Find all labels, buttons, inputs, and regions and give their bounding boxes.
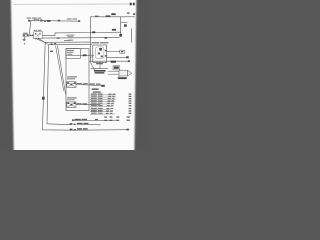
wire W2	[43, 37, 120, 40]
diagonal from left edge to horn switch cluster	[90, 61, 95, 70]
label BLK/WHT above wire A	[27, 18, 32, 19]
labels above W4 left	[64, 40, 71, 41]
small text rows right of tall box	[92, 88, 99, 90]
wire right of switch to comp	[107, 51, 120, 53]
connector blob	[40, 20, 42, 22]
horn unit 2 labels	[67, 97, 77, 98]
dark label under pennant	[118, 77, 127, 79]
connector blob3	[58, 20, 60, 22]
row R9 label and connectors	[77, 128, 82, 129]
wire A top horizontal	[29, 19, 80, 22]
big right box left edge	[89, 17, 91, 62]
header rule	[14, 3, 133, 5]
wire button to relay	[29, 34, 33, 36]
ground marks	[23, 39, 26, 40]
big right box top edge	[90, 16, 134, 18]
stub wire left of switch box	[90, 56, 92, 58]
diagonal D3a to horn unit box	[56, 46, 64, 91]
vertical V1 with long bottom row	[42, 42, 128, 130]
left gray margin	[0, 0, 14, 154]
switch box	[93, 45, 107, 62]
horn unit 2	[67, 102, 76, 108]
arrow feed lines	[108, 70, 119, 72]
wire W4	[44, 41, 90, 43]
switch mechanism	[96, 47, 104, 59]
horn button body	[23, 34, 29, 36]
row R8 label and line	[77, 123, 83, 124]
diagonal D2 relay to W5	[39, 39, 48, 45]
pin blob on W1	[92, 31, 95, 33]
big right box right edge	[131, 29, 133, 43]
ladder row 6	[90, 108, 111, 110]
relay terminals	[35, 38, 36, 40]
wire A end terminal	[78, 20, 80, 22]
page number	[130, 3, 132, 6]
row RA from left	[73, 119, 117, 121]
lower text rows in tall box	[67, 76, 77, 77]
ladder row 7	[90, 111, 113, 113]
connector grid row 2	[104, 120, 107, 121]
small connector box with text	[113, 66, 120, 70]
horn relay label	[34, 30, 37, 31]
ladder row 2	[90, 98, 116, 100]
inner vertical with arrow blob	[120, 17, 122, 37]
wire button down	[24, 37, 26, 40]
vertical V2 with L-turn	[47, 45, 70, 125]
exit wire 2	[76, 104, 100, 106]
wire A start blob	[28, 20, 30, 22]
bowtie connector on wire	[83, 54, 87, 56]
B6 text	[111, 61, 116, 63]
pennant tail	[117, 76, 119, 78]
wire 2 right of switch	[107, 56, 127, 58]
switch pins	[105, 50, 107, 51]
ladder row 1	[90, 96, 116, 98]
nested module box top-left	[66, 49, 80, 59]
horn button label	[23, 33, 27, 34]
ladder row 4	[90, 103, 114, 105]
ladder row 8	[90, 113, 115, 115]
switch box label above	[92, 42, 100, 43]
B2 text	[111, 13, 115, 15]
connector bowtie	[47, 20, 51, 22]
ladder row 5	[90, 105, 113, 107]
wire y68.7	[91, 68, 108, 70]
page background	[0, 0, 150, 150]
right gray margin	[134, 0, 156, 154]
wire W1 inside right box	[90, 31, 120, 33]
connector grid row 1	[104, 116, 107, 117]
diagonal D3b	[57, 45, 65, 94]
dash label near V2	[50, 51, 53, 52]
horn unit 1	[67, 82, 76, 88]
wire W1 stepped	[43, 33, 91, 36]
ladder row 3	[90, 101, 115, 103]
connector pennant	[119, 70, 128, 76]
wire W5 long	[49, 43, 92, 46]
diagonal D1 relay to W4	[37, 39, 45, 42]
horn relay box	[34, 32, 43, 39]
horn switch text	[94, 70, 106, 72]
BR text	[112, 29, 116, 31]
line y61	[89, 60, 128, 62]
label on V1	[42, 97, 45, 100]
ladder row 0	[90, 94, 116, 96]
wire drop to horn button	[29, 21, 31, 35]
connector C1 on wire A	[34, 19, 39, 21]
label on top edge	[106, 15, 111, 17]
label above wire A right	[67, 18, 72, 19]
label rows near W1 W2	[66, 35, 74, 36]
tall center box	[66, 49, 89, 111]
switch box bottom text	[96, 63, 103, 64]
connector blob2	[44, 20, 46, 22]
exit wire 1	[76, 84, 105, 86]
wire out of module	[67, 54, 95, 56]
